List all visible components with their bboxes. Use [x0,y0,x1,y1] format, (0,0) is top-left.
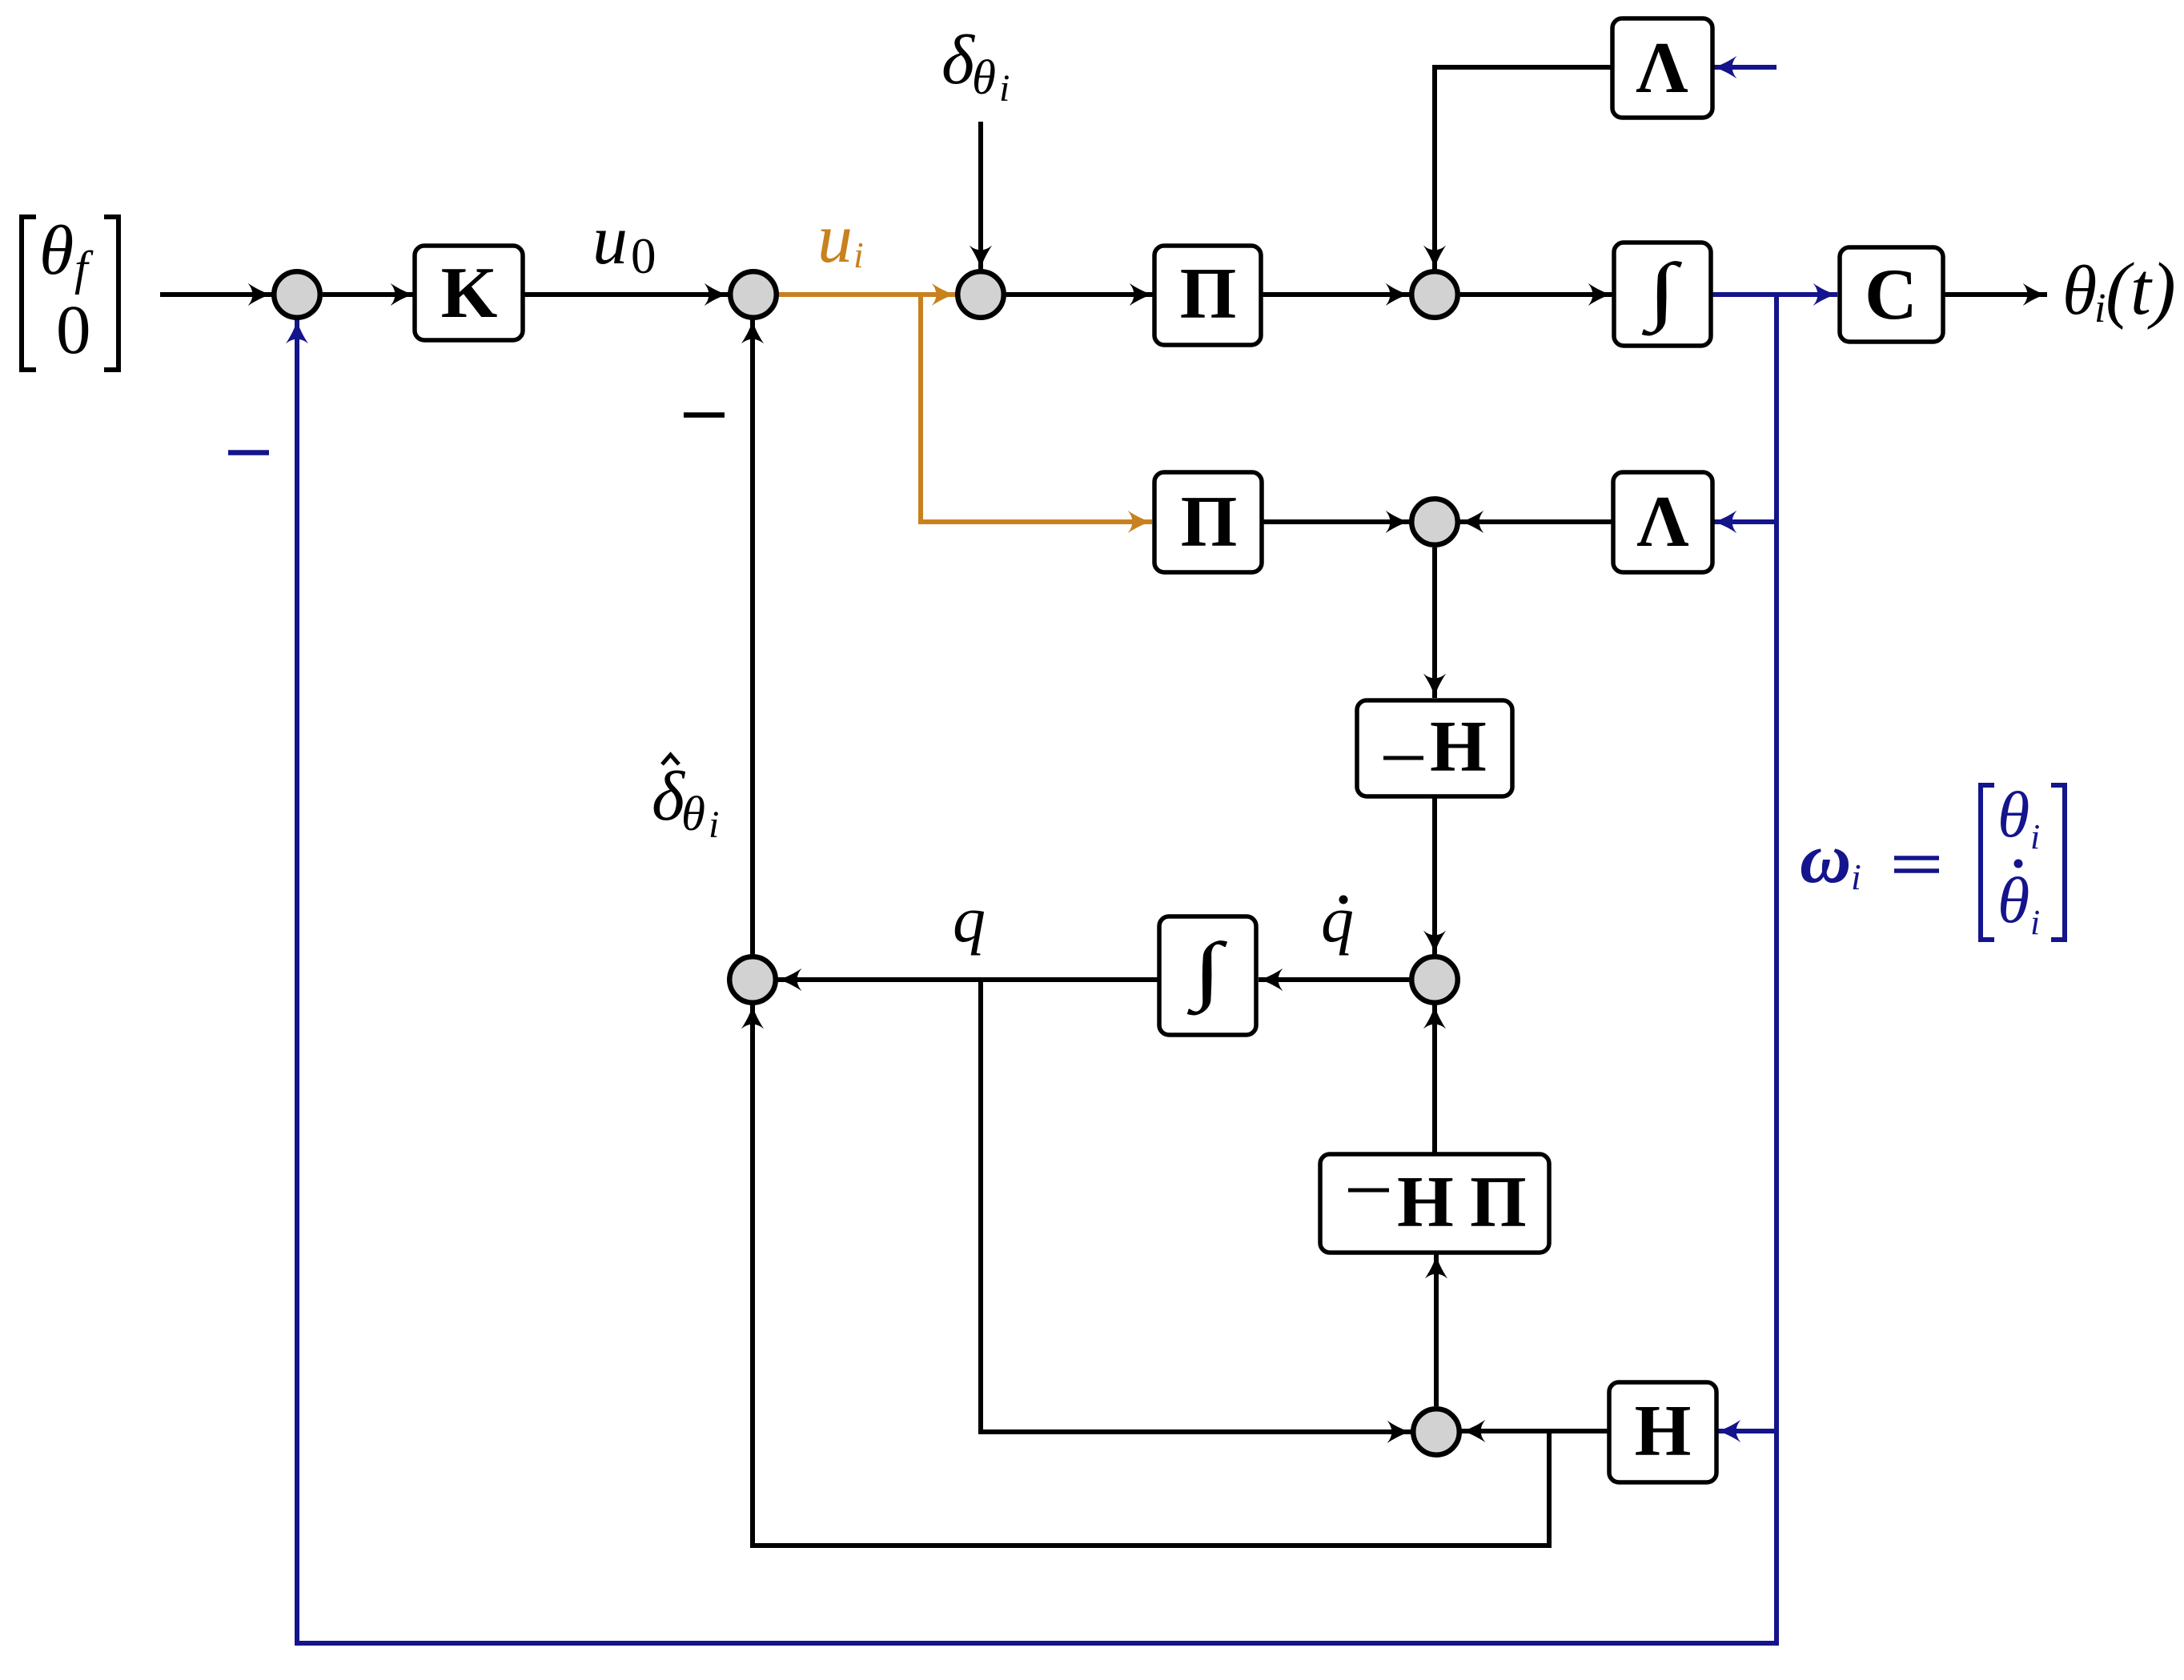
svg-text:u: u [592,202,628,279]
svg-text:i: i [1851,856,1861,897]
svg-text:ω: ω [1800,820,1851,898]
svg-text:f: f [74,242,94,295]
svg-text:q: q [953,883,986,956]
svg-text:Λ: Λ [1636,27,1688,108]
svg-text:θ: θ [1997,864,2029,936]
svg-text:θ: θ [1997,778,2029,851]
svg-text:i: i [2094,286,2106,331]
svg-text:∫: ∫ [1641,247,1683,335]
svg-text:Π: Π [1470,1161,1527,1242]
svg-text:K: K [441,252,498,333]
svg-text:Π: Π [1181,481,1238,562]
svg-text:u: u [817,200,853,278]
svg-text:C: C [1865,254,1917,335]
svg-text:i: i [2030,817,2040,856]
svg-text:i: i [709,804,719,846]
svg-text:θ: θ [681,788,705,841]
svg-text:H: H [1397,1161,1454,1242]
svg-text:q: q [1321,883,1354,956]
svg-text:i: i [2030,903,2040,942]
svg-text:θ: θ [2062,252,2097,330]
svg-text:Π: Π [1180,253,1237,334]
svg-text:0: 0 [56,291,91,368]
svg-text:H: H [1635,1390,1692,1471]
svg-text:(t): (t) [2106,248,2176,331]
svg-text:δ: δ [941,22,976,99]
svg-text:θ: θ [39,212,74,290]
svg-text:θ: θ [972,51,996,105]
svg-text:∫: ∫ [1186,927,1228,1015]
svg-text:H: H [1430,706,1487,787]
svg-text:Λ: Λ [1636,481,1688,562]
svg-text:i: i [853,235,864,275]
svg-text:0: 0 [631,228,656,284]
svg-text:i: i [999,67,1010,110]
